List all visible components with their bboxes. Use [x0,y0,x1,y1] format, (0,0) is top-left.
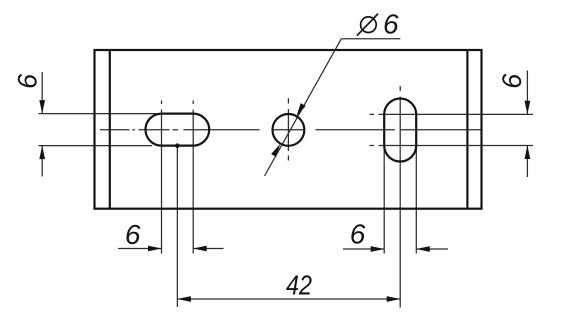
left 6 dim arrows [39,100,45,159]
left slot mid extension line for 42 dim [176,146,178,307]
left 6 dimension line [41,72,43,177]
diameter leader line [265,39,401,176]
left slot centerline / extension line B [192,101,194,254]
right slot outline [384,99,416,162]
left slot centerline / extension line A [161,101,163,254]
diameter leader arrows [271,103,306,157]
right 6 dimension line [526,71,528,178]
bottom-right 6 dimension line [343,248,448,250]
42 dim arrows [177,296,400,302]
main horizontal centerline [100,129,481,131]
bottom-left 6 dim arrows [148,246,207,252]
right slot upper arc-center line / extension [370,113,534,115]
bottom-right 6 dim arrows [371,246,430,252]
circle vertical centerline [287,98,289,160]
svg-text:42: 42 [286,270,312,301]
plate outline [95,50,482,209]
left slot outline [145,114,209,146]
right slot side extension lines for bottom 6 dim [384,146,416,254]
svg-text:6: 6 [383,9,399,40]
right slot lower arc-center line / extension [370,145,534,147]
42 dimension line [177,298,400,300]
left 6 dim extension lines [38,114,161,146]
right 6 dim arrows [525,101,531,159]
left bend line [109,50,111,209]
left slot bottom point marker [175,143,180,148]
diameter symbol [357,14,378,36]
right slot vertical centerline / extension for 42 dim [399,86,401,308]
bottom-left 6 dimension line [118,248,224,250]
svg-text:6: 6 [125,219,141,250]
svg-text:6: 6 [497,73,527,89]
svg-text:6: 6 [13,73,43,89]
center hole [273,114,305,146]
svg-text:6: 6 [350,219,366,250]
right bend line [466,50,468,209]
